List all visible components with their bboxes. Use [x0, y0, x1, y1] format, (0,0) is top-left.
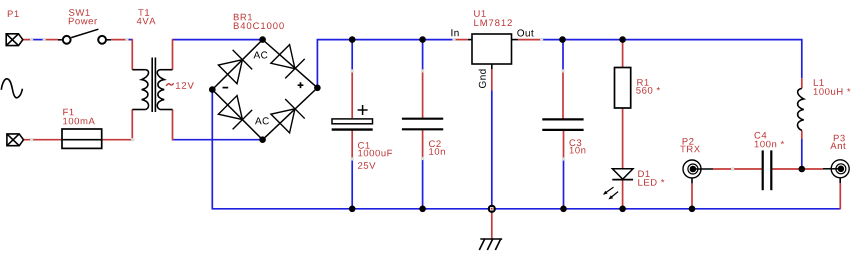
- wire: C2 bottom pin (red): [422, 130, 424, 158]
- label C1 25V: [358, 162, 376, 169]
- capacitor C1 bottom plate: [332, 128, 373, 130]
- diode D1 LED triangle: [612, 169, 633, 179]
- label L1 100uH*: [814, 88, 851, 95]
- wire: T1 primary bottom pin vertical (red): [131, 110, 133, 141]
- net endpoint mark: [30, 38, 33, 41]
- label C1: [358, 142, 370, 149]
- wire: U1 In pin (red): [454, 39, 468, 41]
- label P1: [8, 11, 19, 18]
- wire: T1 primary top pin vertical (red): [131, 39, 133, 70]
- label U1 LM7812: [474, 19, 512, 26]
- wire: U1 Gnd pin (red): [491, 69, 493, 90]
- switch SW1 right contact circle: [98, 36, 106, 44]
- diode BR1 lower-left (minus to AC bottom): [218, 95, 252, 129]
- wire: R1 top pin from rail (red): [622, 42, 624, 68]
- wire: U1 Out pin (red): [518, 39, 542, 41]
- label T1 4VA: [137, 18, 156, 25]
- node top rail C2 junction: [419, 36, 426, 43]
- transformer T1 secondary bottom lead: [160, 109, 173, 111]
- wire: SW1 right pin to T1 primary top corner (red): [111, 39, 127, 41]
- net endpoint mark: [421, 157, 424, 160]
- U1 pin label In: [451, 29, 458, 36]
- label P3: [834, 135, 845, 142]
- diode BR1 upper-right (AC top to plus): [270, 44, 304, 78]
- node BR1 plus junction: [314, 85, 321, 92]
- label L1: [814, 79, 824, 86]
- connector P3 outer circle: [831, 160, 849, 178]
- label U1: [474, 10, 486, 17]
- transformer T1 primary top lead: [132, 69, 146, 71]
- wire: C2 top net (blue): [422, 40, 424, 71]
- AC source squiggle: [1, 79, 22, 98]
- connector P2 right stub: [695, 168, 713, 170]
- wire: C3 bottom net (blue): [563, 159, 565, 209]
- wire: C3 top net (blue): [562, 40, 564, 71]
- resistor R1 body: [615, 68, 631, 109]
- connector P3 inner ring: [836, 164, 846, 174]
- node BR1 AC bottom junction: [259, 136, 266, 143]
- wire: C3 top pin (red): [562, 71, 564, 119]
- switch SW1 left contact circle: [63, 36, 71, 44]
- connector P2 inner ring: [688, 164, 698, 174]
- U1 pin label Gnd (rotated): [479, 69, 486, 88]
- node BR1 AC top junction: [259, 36, 266, 43]
- wire: top +12V rail from BR1 plus corner to U1 In (blue): [317, 40, 454, 88]
- inductor L1 coil: [798, 88, 804, 130]
- capacitor C1 top plate (hollow): [332, 119, 373, 124]
- net endpoint mark: [540, 38, 543, 41]
- wire: C2 bottom net (blue): [422, 159, 424, 209]
- label R1: [637, 79, 648, 86]
- capacitor C4 plates (vertical): [762, 150, 764, 190]
- connector P1 pin1 symbol: [6, 34, 23, 46]
- wire: P2 signal pin to C4 (red): [713, 168, 762, 170]
- BR1 minus label: [223, 87, 229, 89]
- label SW1: [69, 9, 90, 16]
- net endpoint mark: [125, 38, 128, 41]
- wire: C1 top pin (red): [351, 71, 353, 118]
- net endpoint mark: [452, 38, 455, 41]
- node top rail R1 junction: [619, 36, 626, 43]
- switch SW1 right stub: [107, 39, 111, 41]
- node top rail C3 junction: [559, 36, 566, 43]
- node ground rail P2 junction: [689, 206, 696, 213]
- BR1 AC label bottom: [255, 117, 269, 124]
- wire: T1 secondary top pin (red): [172, 39, 174, 70]
- label F1: [63, 109, 73, 116]
- fuse F1 body: [62, 129, 102, 148]
- node ground rail C3 junction: [560, 206, 567, 213]
- label C1 1000uF: [358, 150, 392, 157]
- label C2 10n: [429, 148, 445, 155]
- label F1 100mA: [63, 118, 95, 125]
- wire: R1 bottom to D1 anode (red): [622, 108, 624, 169]
- wire: U1 Gnd net down to ground junction (blue): [491, 91, 493, 209]
- connector P3 bottom stub: [839, 178, 841, 183]
- node top rail C1 junction: [349, 36, 356, 43]
- wire: net T1 secondary bottom to BR1 AC bottom (blue): [173, 139, 263, 141]
- wire: C1 bottom net (blue): [351, 159, 353, 209]
- diode BR1 lower-right (AC bottom to plus): [270, 99, 304, 133]
- wire: net P1.1 to SW1 (blue): [32, 39, 45, 41]
- capacitor C2 plates: [402, 118, 443, 120]
- label C4: [755, 132, 767, 139]
- switch SW1 lever: [71, 29, 98, 37]
- label C3: [570, 139, 582, 146]
- connector P1 pin2 symbol: [7, 134, 24, 146]
- node ground attach junction: [488, 205, 496, 213]
- wire: D1 cathode to ground rail (red): [622, 180, 624, 209]
- connector P2 bottom stub: [691, 179, 693, 184]
- U1 Out stub: [512, 39, 519, 41]
- switch SW1 left stub: [58, 39, 62, 41]
- label T1: [138, 9, 149, 16]
- wire: P3 ground pin down to rail end (red): [839, 183, 841, 209]
- node ground rail D1 junction: [619, 206, 626, 213]
- transformer T1 secondary winding: [157, 70, 164, 110]
- BR1 plus label: [298, 82, 304, 88]
- label BR1 B40C1000: [234, 22, 284, 29]
- label D1 LED*: [638, 179, 664, 186]
- fuse F1 middle line: [62, 139, 102, 141]
- label D1: [638, 171, 649, 178]
- transformer T1 primary winding: [142, 70, 149, 110]
- wire: F1 to T1 primary bottom corner (red): [102, 139, 133, 141]
- label BR1: [234, 14, 252, 20]
- node ground rail C1 junction: [349, 206, 356, 213]
- transformer T1 core lines: [152, 58, 155, 113]
- wire: L1 top pin (red): [801, 78, 803, 88]
- node BR1 minus junction: [209, 86, 216, 93]
- diode D1 light arrows: [604, 187, 618, 198]
- wire: ground symbol pin below junction (red): [491, 209, 493, 239]
- wire: C1 top net (blue): [351, 40, 353, 71]
- wire: T1 secondary bottom pin (red): [172, 110, 174, 141]
- op-amp U1 LM7812 body: [472, 34, 512, 64]
- net endpoint mark: [731, 167, 734, 170]
- net endpoint mark: [131, 138, 134, 141]
- label P2 TRX: [680, 146, 700, 153]
- ground symbol: [479, 239, 502, 250]
- net endpoint mark: [351, 157, 354, 160]
- node ground rail C2 junction: [419, 206, 426, 213]
- net endpoint mark: [351, 69, 354, 72]
- wire: P2 ground pin (red): [691, 183, 693, 208]
- connector P3 left stub: [823, 168, 838, 170]
- U1 In stub: [468, 39, 472, 41]
- net endpoint mark: [562, 157, 565, 160]
- label C3 10n: [570, 147, 586, 154]
- net endpoint mark: [421, 69, 424, 72]
- label C4 100n*: [755, 141, 784, 148]
- wire: SW1 left pin (red): [44, 39, 58, 41]
- label SW1 Power: [69, 18, 97, 25]
- diode D1 cathode bar: [612, 179, 633, 181]
- transformer T1 secondary top lead: [160, 69, 173, 71]
- wire: ground rail from BR1 minus corner along bottom to P3 (blue): [212, 90, 840, 209]
- wire: L1 bottom net to C4/P3 junction (blue): [801, 139, 803, 169]
- BR1 AC label top: [254, 51, 268, 58]
- label C2: [429, 140, 441, 147]
- bridge BR1 diamond edges: [212, 40, 317, 140]
- wire: C4 to L1/P3 junction (red): [771, 168, 823, 170]
- wire: P1 pin 2 to fuse F1 (red): [24, 139, 63, 141]
- wire: P1 pin 1 stub (red): [23, 39, 32, 41]
- net endpoint mark: [561, 69, 564, 72]
- wire: L1 bottom pin (red): [801, 130, 803, 139]
- connector P3 center dot: [838, 166, 845, 173]
- wire: C1 bottom pin (red): [351, 131, 353, 160]
- wire: top rail U1 Out to L1 top (blue): [542, 40, 802, 79]
- node L1/C4/P3 junction: [799, 166, 806, 173]
- wire: net T1 secondary top to BR1 AC top (blue): [173, 39, 263, 41]
- U1 pin label Out: [517, 29, 533, 36]
- capacitor C1 plus sign: [358, 105, 368, 115]
- wire: C2 top pin (red): [422, 71, 424, 118]
- net endpoint mark: [43, 38, 46, 41]
- wire: net SW1 to T1 primary top (blue): [127, 39, 132, 41]
- label T1 ~12V: [166, 83, 173, 86]
- wire: C3 bottom pin (red): [563, 130, 565, 159]
- label P3 Ant: [830, 143, 845, 150]
- U1 Gnd stub: [491, 64, 493, 69]
- connector P2 outer circle: [683, 160, 701, 178]
- connector P2 center dot: [690, 166, 697, 173]
- net endpoint mark: [30, 138, 33, 141]
- transformer T1 primary bottom lead: [132, 109, 146, 111]
- diode BR1 upper-left (minus to AC top): [218, 50, 252, 84]
- label P2: [683, 138, 694, 145]
- capacitor C3 plates: [542, 118, 583, 120]
- label R1 560*: [636, 87, 660, 94]
